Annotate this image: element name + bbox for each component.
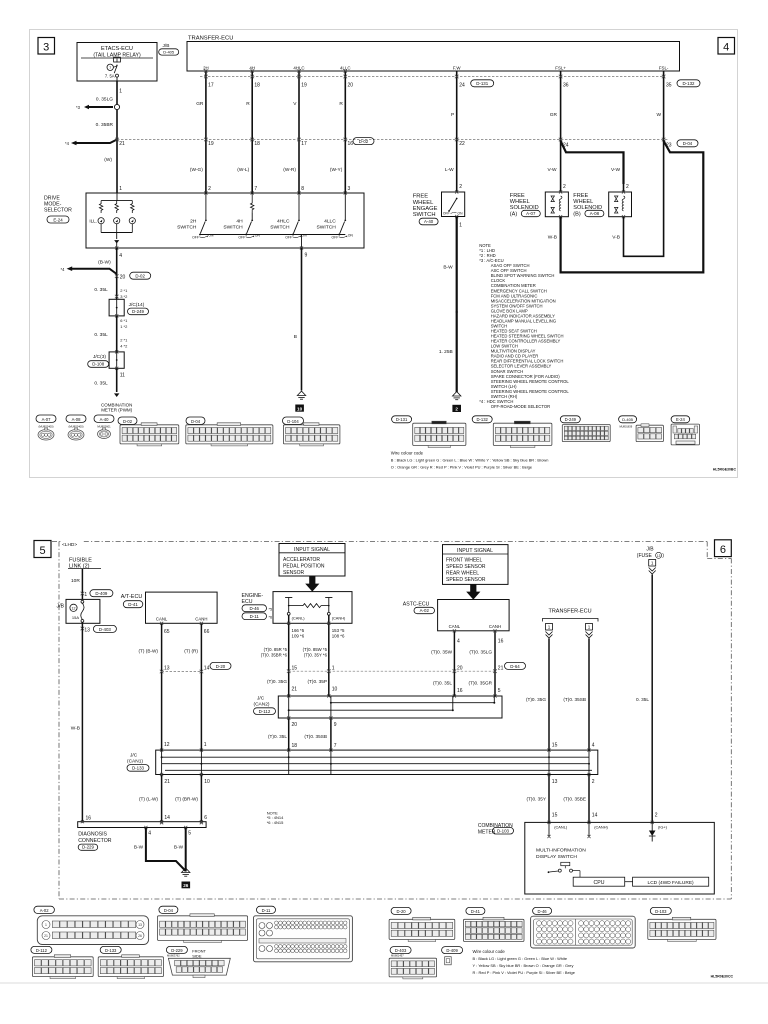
ground symbol left — [297, 391, 305, 395]
svg-text:16: 16 — [498, 638, 504, 644]
svg-text:D-103: D-103 — [497, 828, 510, 833]
svg-text:ACCELERATOR: ACCELERATOR — [283, 557, 320, 563]
svg-text:D-249: D-249 — [132, 309, 145, 314]
connector D-131 — [392, 416, 412, 423]
wire pin9 to ground 10 — [300, 246, 303, 249]
svg-text:W-B: W-B — [548, 235, 557, 241]
transfer CAN G wire — [548, 639, 550, 751]
svg-text:7: 7 — [254, 186, 257, 192]
CAN termination resistor inside engine ecu — [285, 597, 292, 599]
svg-text:(W): (W) — [104, 157, 112, 163]
svg-text:D-04: D-04 — [164, 908, 174, 913]
svg-text:0. 35L: 0. 35L — [94, 287, 108, 293]
DIAGNOSIS CONNECTOR D-229 bar — [78, 822, 206, 828]
svg-text:A-02: A-02 — [40, 908, 50, 913]
svg-text:66: 66 — [204, 629, 210, 635]
J/C(14) D-249 junction box — [109, 299, 124, 316]
svg-text:3 *2: 3 *2 — [120, 294, 128, 299]
ground wires from diagnosis connector — [144, 826, 147, 829]
svg-text:(B-W): (B-W) — [98, 260, 111, 266]
svg-text:SWITCH: SWITCH — [177, 224, 197, 230]
svg-text:D-112: D-112 — [259, 709, 271, 714]
wire pin4 to combination meter with J/C boxes — [115, 246, 118, 249]
bottom separator line — [0, 982, 768, 984]
svg-text:FUSIBLE: FUSIBLE — [69, 557, 92, 563]
svg-text:D-64: D-64 — [510, 664, 520, 669]
svg-text:10: 10 — [297, 406, 303, 411]
svg-text:(MU802400): (MU802400) — [69, 424, 84, 428]
LCD 4WD FAILURE box — [633, 877, 709, 886]
svg-text:SELECTOR: SELECTOR — [44, 207, 72, 213]
svg-text:(T)0. 35W: (T)0. 35W — [431, 649, 452, 654]
svg-text:SIDE: SIDE — [192, 953, 202, 958]
svg-text:1: 1 — [119, 186, 122, 192]
svg-text:3: 3 — [43, 42, 49, 54]
connector A-08 — [66, 415, 86, 422]
svg-text:A-08: A-08 — [590, 211, 600, 216]
svg-text:(CANL): (CANL) — [554, 824, 568, 829]
svg-text:(T)0. 35Y *6: (T)0. 35Y *6 — [304, 653, 328, 658]
svg-text:16: 16 — [86, 816, 92, 822]
svg-text:2: 2 — [459, 184, 462, 190]
wire 2H/4H/4HLC/4LLC branch at x=205.9 — [205, 71, 207, 193]
svg-text:D-229: D-229 — [82, 845, 95, 850]
svg-text:SWITCH: SWITCH — [223, 224, 243, 230]
connector D-132 — [472, 416, 492, 423]
svg-text:0. 35LG: 0. 35LG — [96, 97, 113, 103]
svg-text:J/C(14): J/C(14) — [129, 302, 145, 308]
svg-text:D-46: D-46 — [249, 606, 259, 611]
svg-text:(T)0. 35GR: (T)0. 35GR — [469, 681, 493, 686]
svg-text:R: R — [246, 101, 250, 107]
svg-text:FREE: FREE — [413, 194, 429, 200]
svg-text:(W-G): (W-G) — [190, 167, 203, 173]
svg-text:4: 4 — [592, 743, 595, 749]
svg-text:4: 4 — [148, 830, 151, 836]
svg-text:B : Black LG : Light green: B : Black LG : Light green G : Green L :… — [391, 458, 549, 463]
svg-text:(CAN1): (CAN1) — [127, 758, 143, 764]
svg-text:18: 18 — [254, 83, 260, 89]
FSL- wire — [663, 71, 665, 140]
svg-text:MU801639: MU801639 — [620, 425, 633, 429]
svg-text:1. 25B: 1. 25B — [439, 349, 453, 355]
svg-text:FRONT WHEEL: FRONT WHEEL — [446, 558, 483, 564]
CAN2 bus lines — [331, 702, 494, 704]
svg-text:(CANH): (CANH) — [332, 615, 346, 620]
svg-text:D-11: D-11 — [262, 908, 271, 913]
engine ecu CANH wire — [328, 615, 330, 696]
svg-text:D-103: D-103 — [655, 909, 667, 914]
svg-text:ON: ON — [348, 233, 354, 237]
svg-text:4LLC: 4LLC — [324, 219, 336, 225]
svg-text:(T)0. 35LG: (T)0. 35LG — [469, 649, 492, 654]
svg-text:9: 9 — [334, 722, 337, 728]
svg-text:2 *1: 2 *1 — [120, 288, 128, 293]
svg-text:WHEEL: WHEEL — [573, 199, 593, 205]
svg-text:(T) (L-W): (T) (L-W) — [139, 797, 158, 802]
svg-text:MULTI-INFORMATION: MULTI-INFORMATION — [536, 848, 586, 854]
svg-text:20: 20 — [457, 665, 463, 671]
svg-text:SWITCH: SWITCH — [270, 224, 290, 230]
ASTC CANL wire — [453, 631, 455, 696]
svg-text:D-112: D-112 — [36, 948, 48, 953]
connector D-104 — [283, 417, 304, 424]
svg-text:ON: ON — [208, 233, 214, 237]
svg-text:17: 17 — [208, 83, 214, 89]
connector D-133 — [100, 946, 121, 953]
svg-text:ETACS-ECU: ETACS-ECU — [101, 46, 133, 52]
svg-text:HL5R0E30CC: HL5R0E30CC — [711, 975, 734, 979]
svg-text:B: B — [294, 334, 297, 340]
svg-text:DIAGNOSIS: DIAGNOSIS — [78, 832, 107, 838]
svg-text:SPEED SENSOR: SPEED SENSOR — [446, 564, 486, 570]
svg-text:1 *2: 1 *2 — [120, 324, 128, 329]
svg-text:SWITCH: SWITCH — [413, 212, 436, 218]
svg-text:MU801457: MU801457 — [391, 954, 404, 958]
svg-text:4: 4 — [119, 253, 122, 259]
svg-text:(T)0. 85R *5: (T)0. 85R *5 — [264, 647, 288, 652]
CPU box — [573, 870, 581, 872]
svg-text:109 *6: 109 *6 — [292, 633, 305, 638]
svg-text:ON: ON — [458, 212, 464, 216]
svg-text:INPUT SIGNAL: INPUT SIGNAL — [294, 547, 330, 553]
page 1 frame border — [30, 30, 738, 478]
svg-text:TRANSFER-ECU: TRANSFER-ECU — [548, 608, 591, 614]
svg-text:WHEEL: WHEEL — [413, 200, 434, 206]
page index box 5 — [34, 541, 51, 558]
svg-text:2: 2 — [563, 184, 566, 190]
svg-text:21: 21 — [164, 779, 170, 785]
svg-text:P: P — [451, 112, 454, 118]
ETACS-ECU (TAIL LAMP RELAY) box — [77, 43, 157, 82]
svg-text:MU802601: MU802601 — [97, 424, 111, 428]
big black arrow 1 — [305, 576, 319, 592]
svg-text:16: 16 — [457, 688, 463, 694]
svg-text:CANL: CANL — [156, 617, 168, 622]
svg-text:(W-Y): (W-Y) — [330, 167, 343, 173]
connector D-103 — [650, 907, 671, 914]
svg-text:D-41: D-41 — [128, 602, 138, 607]
svg-text:B : Black LG : Light green: B : Black LG : Light green G : Green L :… — [473, 956, 568, 961]
svg-text:OFF: OFF — [238, 236, 245, 240]
svg-text:(FUSE: (FUSE — [637, 553, 653, 559]
svg-text:(T)0. 35Y: (T)0. 35Y — [526, 797, 546, 802]
connector D-11 — [257, 906, 276, 913]
illumination lamp branches inside selector — [101, 200, 132, 202]
svg-text:W-B: W-B — [71, 726, 80, 732]
svg-text:D-04: D-04 — [683, 141, 693, 146]
svg-text:4: 4 — [723, 42, 729, 54]
svg-text:A-07: A-07 — [42, 417, 52, 422]
svg-text:1: 1 — [651, 561, 654, 566]
svg-text:CANH: CANH — [195, 617, 207, 622]
connector D-405 — [619, 416, 637, 423]
svg-text:4H: 4H — [236, 219, 243, 225]
svg-text:D-403: D-403 — [395, 948, 407, 953]
diode on IG+ — [651, 822, 653, 830]
wire 2H/4H/4HLC/4LLC branch at x=252.2 — [251, 71, 253, 193]
connector D-20 — [391, 907, 411, 914]
page index box 3 — [38, 38, 55, 55]
svg-text:ILL.: ILL. — [89, 219, 97, 224]
svg-text:1: 1 — [548, 625, 551, 630]
svg-text:36: 36 — [563, 83, 569, 89]
svg-text:D-108: D-108 — [92, 362, 105, 367]
svg-text:D-104: D-104 — [287, 419, 299, 424]
svg-text:ASTC-ECU: ASTC-ECU — [403, 601, 430, 607]
svg-text:D-405: D-405 — [163, 50, 175, 55]
svg-text:E-24: E-24 — [676, 417, 686, 422]
svg-text:J/B: J/B — [163, 43, 170, 49]
svg-text:OFF: OFF — [332, 236, 339, 240]
svg-text:SENSOR: SENSOR — [283, 570, 305, 576]
svg-text:O : Orange GR : Grey R :: O : Orange GR : Grey R : Red P : Pink V … — [391, 464, 532, 469]
dashed connector line D-02/D-04 mid page — [117, 139, 668, 141]
svg-text:<LHD>: <LHD> — [62, 542, 77, 548]
svg-text:7. 5A: 7. 5A — [105, 73, 115, 78]
svg-text:MU803762: MU803762 — [167, 953, 180, 957]
svg-text:(T)0. 35L: (T)0. 35L — [268, 734, 287, 739]
svg-text:14: 14 — [204, 665, 210, 671]
svg-text:4LLC: 4LLC — [340, 65, 351, 70]
svg-text:(CANL): (CANL) — [292, 615, 306, 620]
svg-text:153 *5: 153 *5 — [332, 628, 345, 633]
solenoid B return path to FSL- — [624, 140, 664, 257]
svg-text:6: 6 — [204, 815, 207, 821]
svg-text:4HLC: 4HLC — [277, 219, 290, 225]
wire from ETACS relay to drive mode selector — [116, 81, 118, 193]
svg-text:4H: 4H — [249, 65, 255, 70]
svg-text:13: 13 — [552, 779, 558, 785]
connector A-07 — [36, 415, 56, 422]
connector D-249 — [560, 416, 580, 423]
wire 2H/4H/4HLC/4LLC branch at x=299.0 — [298, 71, 300, 193]
svg-text:HL5RGE30BC: HL5RGE30BC — [713, 468, 737, 472]
svg-text:WHEEL: WHEEL — [510, 199, 530, 205]
transfer wire to meter CANL — [548, 775, 550, 823]
svg-text:12: 12 — [164, 742, 170, 748]
long dashed D-64 line — [289, 670, 495, 672]
svg-text:SWITCH: SWITCH — [317, 224, 337, 230]
svg-text:4: 4 — [457, 638, 460, 644]
svg-text:0. 35L: 0. 35L — [94, 332, 108, 338]
svg-text:7: 7 — [109, 66, 111, 70]
svg-text:D-132: D-132 — [476, 417, 488, 422]
svg-text:ON: ON — [255, 233, 261, 237]
svg-text:20: 20 — [292, 722, 298, 728]
connector E-24 — [671, 416, 690, 423]
svg-text:1: 1 — [588, 625, 591, 630]
svg-text:CANL: CANL — [449, 624, 461, 629]
svg-text:REAR WHEEL: REAR WHEEL — [446, 570, 479, 576]
svg-text:(A): (A) — [510, 211, 518, 217]
page 2 dash-dot border — [52, 541, 707, 543]
svg-text:12: 12 — [72, 607, 76, 611]
svg-text:*5: *5 — [269, 608, 273, 612]
svg-text:INPUT SIGNAL: INPUT SIGNAL — [457, 548, 493, 554]
svg-text:(T)0. 85W *5: (T)0. 85W *5 — [303, 647, 328, 652]
connector ref D-02 on dashed line — [353, 138, 374, 145]
svg-text:V-W: V-W — [547, 167, 557, 173]
svg-text:D-229: D-229 — [171, 948, 183, 953]
svg-text:(T) (B-W): (T) (B-W) — [138, 649, 158, 654]
svg-text:21: 21 — [119, 141, 125, 147]
svg-text:*4: *4 — [65, 141, 70, 146]
svg-text:2H: 2H — [203, 65, 209, 70]
svg-text:D-20: D-20 — [216, 664, 226, 669]
svg-text:1: 1 — [119, 89, 122, 95]
svg-text:166 *5: 166 *5 — [292, 628, 305, 633]
svg-text:(CAN2): (CAN2) — [254, 702, 270, 708]
svg-text:D-20: D-20 — [397, 909, 407, 914]
svg-text:10R: 10R — [71, 578, 80, 584]
A/T-ECU CANL wire — [161, 623, 163, 750]
svg-text:J/C(3): J/C(3) — [93, 354, 106, 360]
svg-text:A-40: A-40 — [424, 219, 434, 224]
svg-text:ECU: ECU — [242, 599, 253, 605]
svg-text:(T)0. 35G: (T)0. 35G — [267, 679, 287, 684]
svg-text:(T) (R): (T) (R) — [184, 649, 198, 654]
svg-text:DISPLAY SWITCH: DISPLAY SWITCH — [536, 854, 577, 860]
svg-text:5: 5 — [498, 688, 501, 694]
svg-text:18: 18 — [292, 743, 298, 749]
svg-text:SPEED SENSOR: SPEED SENSOR — [446, 577, 486, 583]
heavy loop: pin23 around to solenoid A return — [561, 141, 704, 272]
svg-text:13: 13 — [657, 554, 661, 558]
svg-text:1: 1 — [459, 223, 462, 229]
svg-text:D-131: D-131 — [476, 81, 489, 86]
svg-text:R: R — [339, 101, 343, 107]
svg-text:FSL+: FSL+ — [555, 65, 566, 70]
svg-text:1: 1 — [84, 592, 87, 598]
svg-text:F.W: F.W — [453, 65, 461, 70]
svg-text:D-41: D-41 — [471, 909, 481, 914]
svg-text:Wire colour code: Wire colour code — [391, 451, 424, 456]
svg-text:J/C: J/C — [257, 696, 265, 702]
svg-text:(W-R): (W-R) — [283, 167, 296, 173]
svg-text:21: 21 — [292, 687, 298, 693]
connector D-04 — [186, 417, 205, 424]
svg-text:D-46: D-46 — [538, 909, 548, 914]
big black arrow 2 — [466, 584, 480, 599]
svg-text:A-08: A-08 — [72, 417, 82, 422]
F.W wire with FREE WHEEL ENGAGE SWITCH — [456, 71, 458, 192]
svg-text:24: 24 — [459, 83, 465, 89]
transfer wire to meter CANH — [588, 775, 590, 823]
svg-text:V-B: V-B — [612, 235, 620, 241]
dashed connector line D-131/D-132 below transfer ecu — [200, 76, 665, 78]
switch branches 2H 4H 4HLC 4LLC inside selector — [205, 193, 207, 219]
INPUT SIGNAL accelerator box — [279, 544, 345, 577]
svg-text:5: 5 — [39, 545, 45, 557]
svg-text:13: 13 — [138, 923, 142, 927]
svg-text:*6: *6 — [269, 616, 273, 620]
page index box 6 — [715, 540, 732, 557]
svg-text:A-07: A-07 — [526, 211, 536, 216]
svg-text:4HLC: 4HLC — [293, 65, 304, 70]
connector D-02 — [118, 417, 137, 424]
svg-text:14: 14 — [164, 815, 170, 821]
svg-text:*6 : 4N15: *6 : 4N15 — [267, 820, 284, 825]
svg-text:Y : Yellow SB : Sky blue: Y : Yellow SB : Sky blue BR : Brown O : … — [473, 963, 574, 968]
svg-text:*4: *4 — [61, 267, 66, 272]
connector A-02 — [34, 906, 55, 913]
J/B fuse box page2 — [66, 599, 100, 623]
svg-text:0. 35L: 0. 35L — [94, 381, 108, 387]
*4 arrow at junction 21 — [75, 140, 117, 144]
svg-text:D-132: D-132 — [683, 81, 696, 86]
svg-text:22: 22 — [459, 141, 465, 147]
svg-text:21: 21 — [44, 934, 48, 938]
svg-text:Wire colour code: Wire colour code — [473, 949, 506, 954]
svg-text:OFF: OFF — [192, 236, 199, 240]
svg-text:15A: 15A — [72, 615, 79, 620]
svg-text:1: 1 — [45, 923, 47, 927]
page index box 4 — [718, 38, 735, 55]
connector D-403 — [390, 947, 411, 954]
svg-text:D-131: D-131 — [396, 417, 408, 422]
svg-text:(T)0. 35BE: (T)0. 35BE — [563, 797, 586, 802]
svg-text:ON: ON — [302, 233, 308, 237]
svg-text:(T)0. 35BR *6: (T)0. 35BR *6 — [261, 653, 288, 658]
svg-text:26: 26 — [138, 934, 142, 938]
svg-text:2: 2 — [626, 184, 629, 190]
svg-text:B-W: B-W — [443, 265, 453, 271]
svg-text:6 *1: 6 *1 — [120, 318, 128, 323]
svg-text:E-24: E-24 — [53, 217, 63, 222]
svg-text:J/B: J/B — [646, 546, 654, 552]
svg-text:W: W — [656, 112, 661, 118]
svg-text:0. 35L: 0. 35L — [636, 697, 649, 702]
svg-text:OFF-ROAD-MODE SELECTOR: OFF-ROAD-MODE SELECTOR — [491, 404, 550, 409]
long W-B wire down to diagnosis connector — [81, 622, 83, 823]
meter internal stubs — [548, 822, 550, 836]
svg-text:L-W: L-W — [445, 167, 454, 173]
wire 2H/4H/4HLC/4LLC branch at x=345.3 — [344, 71, 346, 193]
svg-text:LCD (4WD FAILURE): LCD (4WD FAILURE) — [648, 880, 695, 886]
svg-text:2H: 2H — [190, 219, 197, 225]
connector D-46 — [533, 907, 552, 914]
svg-text:6: 6 — [720, 544, 726, 556]
svg-text:1: 1 — [332, 665, 335, 671]
svg-text:D-409: D-409 — [446, 948, 458, 953]
svg-text:16: 16 — [348, 141, 354, 147]
svg-text:5: 5 — [188, 830, 191, 836]
connector D-112 — [31, 946, 52, 953]
svg-text:FREE: FREE — [573, 193, 588, 199]
svg-text:21: 21 — [498, 665, 504, 671]
J/C(3) D-108 junction box — [109, 352, 124, 368]
svg-text:(CANH): (CANH) — [594, 824, 608, 829]
junction circle with *3 arrow — [114, 104, 119, 109]
svg-text:GR: GR — [550, 112, 558, 118]
A/T-ECU CANH wire — [200, 623, 202, 750]
svg-text:D-04: D-04 — [191, 419, 201, 424]
LHD tag — [61, 540, 82, 548]
heavy battery wire 1.25B to ground 2 — [456, 217, 458, 393]
connector D-229 OBD — [166, 946, 187, 953]
transfer CAN SB wire — [588, 639, 590, 751]
heavy branch from pin24 to solenoid B — [561, 141, 624, 184]
CAN1 bus lines — [162, 756, 589, 758]
svg-text:20: 20 — [120, 275, 126, 281]
svg-text:(MU802400): (MU802400) — [39, 424, 54, 428]
svg-text:19: 19 — [208, 141, 214, 147]
common bus to pin 9 — [200, 234, 345, 236]
svg-text:108 *6: 108 *6 — [332, 633, 345, 638]
svg-text:D-133: D-133 — [105, 948, 117, 953]
svg-text:10: 10 — [332, 687, 338, 693]
